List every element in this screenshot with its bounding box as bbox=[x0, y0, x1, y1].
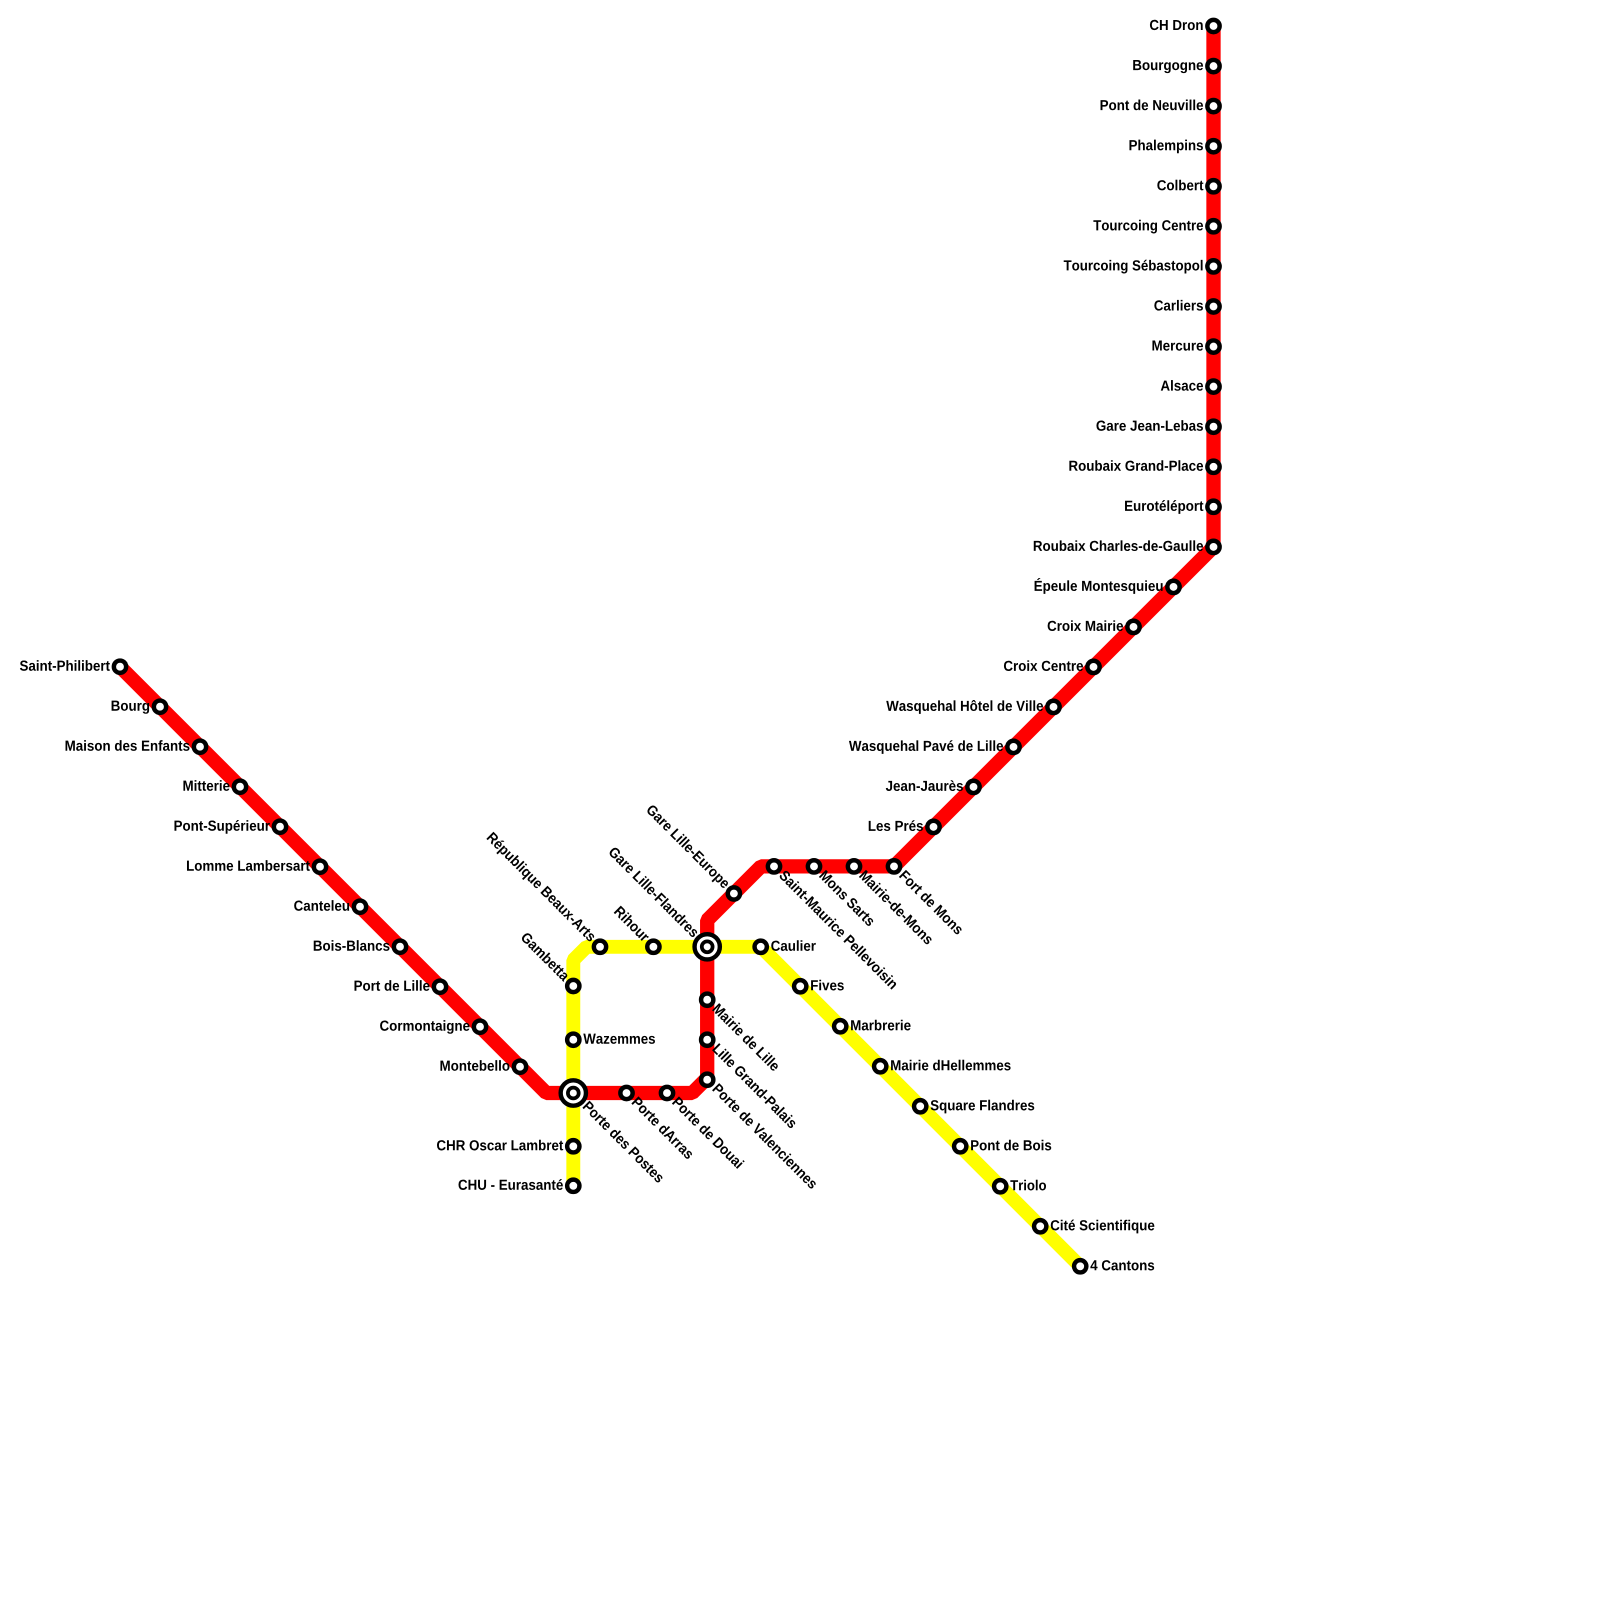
station Pont-Superieur bbox=[174, 820, 286, 834]
station Bourg bbox=[112, 701, 167, 714]
station Croix-Mairie bbox=[1048, 620, 1140, 633]
interchange station Porte-des-Postes bbox=[561, 1080, 666, 1183]
station Mairie-de-Mons bbox=[848, 860, 935, 945]
station Canteleu bbox=[294, 900, 366, 913]
station Pont-de-Neuville bbox=[1101, 100, 1220, 113]
station Lille-Grand-Palais bbox=[701, 1034, 798, 1130]
metro line 2 (red) bbox=[120, 26, 1214, 1093]
station Tourcoing-Centre bbox=[1093, 220, 1219, 234]
station CH-Dron bbox=[1150, 20, 1220, 32]
station Epeule-Montesquieu bbox=[1035, 578, 1180, 594]
station Square-Flandres bbox=[914, 1100, 1034, 1114]
station Caulier bbox=[755, 940, 816, 953]
station Wazemmes bbox=[567, 1034, 655, 1046]
station Triolo bbox=[994, 1180, 1046, 1193]
station Roubaix-Charles-de-Gaulle bbox=[1034, 540, 1220, 553]
station Alsace bbox=[1161, 380, 1220, 393]
station Mitterie bbox=[183, 780, 246, 793]
station Wasquehal-Hotel-de-Ville bbox=[886, 700, 1059, 714]
station Porte-de-Douai bbox=[661, 1087, 745, 1169]
station Mercure bbox=[1152, 340, 1219, 352]
station Fives bbox=[794, 980, 844, 993]
station Gambetta bbox=[520, 931, 579, 992]
station Montebello bbox=[440, 1060, 526, 1073]
station Colbert bbox=[1157, 180, 1219, 193]
station Gare-Jean-Lebas bbox=[1096, 420, 1219, 433]
station Bourgogne bbox=[1133, 60, 1219, 73]
station Bois-Blancs bbox=[314, 940, 406, 953]
station Tourcoing-Sebastopol bbox=[1064, 260, 1220, 274]
station Lomme-Lambersart bbox=[187, 860, 326, 873]
station Jean-Jaures bbox=[886, 780, 980, 793]
station Fort-de-Mons bbox=[888, 860, 965, 935]
station Cite-Scientifique bbox=[1034, 1220, 1154, 1234]
station Mairie-de-Lille bbox=[701, 994, 781, 1072]
station CHU---Eurasante bbox=[459, 1179, 580, 1192]
station Republique-Beaux-Arts bbox=[484, 831, 606, 953]
station 4-Cantons bbox=[1074, 1260, 1154, 1272]
station Saint-Philibert bbox=[20, 660, 126, 673]
station Croix-Centre bbox=[1004, 660, 1100, 673]
station Pont-de-Bois bbox=[954, 1140, 1051, 1153]
station Port-de-Lille bbox=[354, 980, 446, 993]
station Porte-dArras bbox=[620, 1087, 695, 1160]
station Cormontaigne bbox=[380, 1020, 486, 1034]
station Mairie-dHellemmes bbox=[874, 1060, 1011, 1073]
station Marbrerie bbox=[834, 1020, 911, 1033]
metro line 1 (yellow) bbox=[573, 947, 1080, 1267]
interchange station Gare-Lille-Flandres bbox=[608, 846, 720, 960]
station Roubaix-Grand-Place bbox=[1069, 460, 1219, 473]
station Rihour bbox=[614, 905, 660, 953]
station Porte-de-Valenciennes bbox=[701, 1074, 819, 1190]
station Euroteleport bbox=[1125, 500, 1220, 514]
station Carliers bbox=[1154, 300, 1219, 313]
station Saint-Maurice-Pellevoisin bbox=[768, 860, 899, 989]
station Les-Pres bbox=[869, 820, 940, 833]
station Wasquehal-Pave-de-Lille bbox=[849, 740, 1020, 754]
station Mons-Sarts bbox=[808, 860, 876, 927]
station Gare-Lille-Europe bbox=[644, 803, 740, 899]
station Phalempins bbox=[1129, 140, 1219, 154]
station Maison-des-Enfants bbox=[66, 740, 207, 753]
station CHR-Oscar-Lambret bbox=[437, 1140, 579, 1153]
